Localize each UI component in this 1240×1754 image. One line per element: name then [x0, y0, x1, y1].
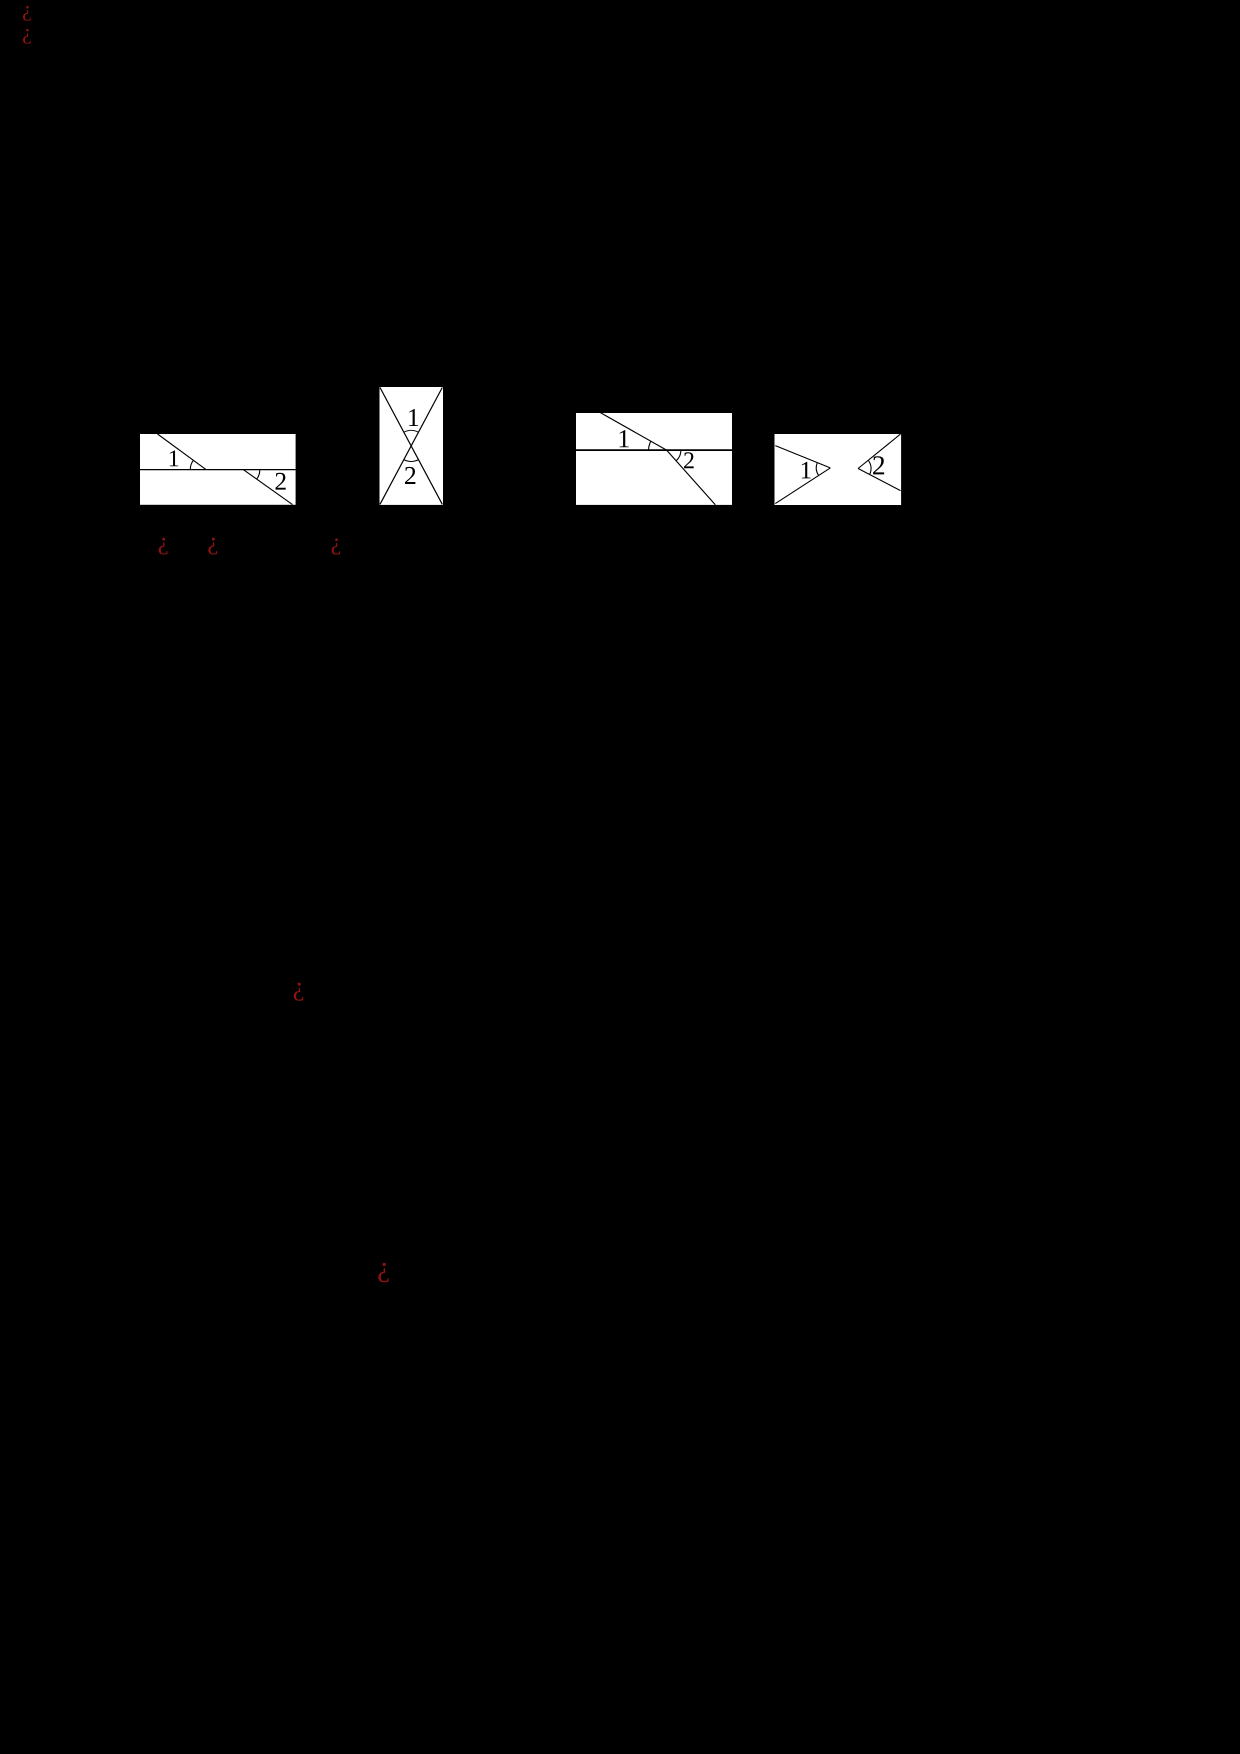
figure 1 white box	[140, 434, 296, 505]
figure 2 upper angle arc	[404, 430, 419, 432]
red corner artifact mark 1	[23, 6, 31, 21]
figure 4 right angle arc	[868, 460, 871, 474]
figure 4 right V lower ray	[858, 469, 900, 491]
red inverted question mark 1	[159, 538, 168, 555]
figure 3 lower ray	[667, 450, 716, 505]
figure 4 left angle arc	[816, 463, 818, 476]
figure 1 diagonal ray upper-left	[158, 434, 207, 470]
figure 4 label 2	[873, 456, 884, 474]
figure 2 diagonal TR-BL	[380, 388, 442, 505]
red inverted question mark 4	[294, 983, 303, 1001]
figure 2 lower angle arc	[404, 460, 419, 462]
red corner artifact mark 2	[23, 29, 31, 44]
figure 1 label 2	[276, 473, 286, 490]
figure 1 horizontal line	[140, 469, 296, 471]
figure 1 angle arc 2	[257, 470, 260, 480]
figure 4 label 1	[802, 462, 811, 479]
figure 2 label 1	[409, 409, 418, 426]
figure 2 white box	[380, 387, 444, 505]
figure 3 label 2	[684, 452, 694, 468]
figure 2 diagonal TL-BR	[380, 388, 442, 505]
figure 3 angle arc 2	[676, 450, 681, 461]
figure 4 left V lower ray	[775, 468, 830, 504]
figure 3 horizontal line	[576, 449, 732, 451]
figure 3 angle arc 1	[649, 441, 651, 450]
figure 2 label 2	[405, 467, 415, 484]
figure 1 angle arc 1	[190, 460, 193, 469]
figure 1 label 1	[170, 450, 178, 466]
figure 4 white box	[775, 434, 902, 505]
figure 3 label 1	[620, 430, 629, 447]
red inverted question mark 3	[332, 538, 340, 554]
figure 3 white box	[576, 413, 732, 505]
red inverted question mark 2	[208, 538, 217, 555]
figure 3 upper ray	[601, 413, 667, 450]
figure 1 diagonal ray lower-right	[243, 470, 292, 505]
red inverted question mark 5	[378, 1263, 388, 1283]
figure 4 left V upper ray	[775, 446, 830, 468]
figure 4 right V upper ray	[858, 434, 900, 468]
